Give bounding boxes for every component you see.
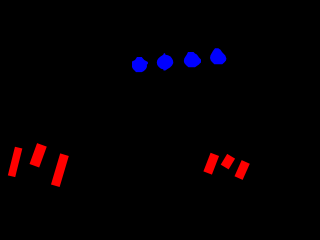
red bar D (lower-right group, leftmost) xyxy=(203,153,219,175)
blue blob 1 xyxy=(132,57,148,72)
blue blob 4 xyxy=(210,48,226,64)
red bar A (lower-left group, leftmost) xyxy=(8,147,23,177)
red bar C (lower-left group, rightmost) xyxy=(51,153,69,187)
blue blob 2 xyxy=(157,53,174,70)
black background xyxy=(0,0,259,224)
red bar E (lower-right group, middle) xyxy=(221,154,235,170)
blue blob 3 xyxy=(184,52,201,67)
red bar F (lower-right group, rightmost) xyxy=(235,160,250,180)
red bar B (lower-left group, middle) xyxy=(29,143,46,167)
